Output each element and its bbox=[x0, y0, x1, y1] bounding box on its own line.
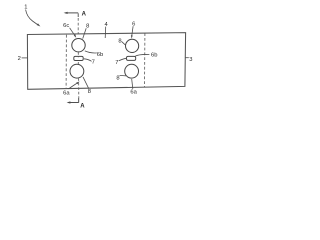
hole 8 bottom-left bbox=[70, 64, 84, 78]
leader 2 bbox=[22, 57, 28, 59]
leader 8 top-left bbox=[83, 28, 87, 38]
leader 6b right bbox=[135, 54, 149, 56]
svg-text:A: A bbox=[82, 12, 87, 18]
svg-text:2: 2 bbox=[18, 56, 21, 62]
svg-text:6b: 6b bbox=[151, 53, 157, 59]
leader 8 top-right bbox=[122, 42, 126, 46]
leader 3 bbox=[185, 57, 189, 59]
svg-text:A: A bbox=[80, 103, 85, 109]
section arrow A top bbox=[64, 12, 79, 14]
svg-text:8: 8 bbox=[116, 75, 119, 81]
svg-text:6b: 6b bbox=[97, 52, 103, 58]
leader 8 bottom-right bbox=[120, 74, 127, 77]
section line A-A gap dashes bbox=[77, 52, 79, 57]
svg-text:3: 3 bbox=[189, 57, 192, 63]
leader 7 right bbox=[119, 58, 127, 61]
leader 6a right bbox=[132, 79, 133, 89]
leader 6b left bbox=[85, 51, 97, 53]
svg-text:8: 8 bbox=[86, 23, 89, 29]
svg-text:7: 7 bbox=[92, 59, 95, 65]
svg-text:6a: 6a bbox=[130, 89, 137, 95]
hole 8 top-left bbox=[72, 39, 85, 52]
svg-text:1: 1 bbox=[24, 4, 27, 10]
leader 7 left bbox=[84, 59, 92, 62]
hole 8 top-right bbox=[126, 39, 139, 52]
leader 1 bbox=[26, 10, 39, 26]
svg-text:8: 8 bbox=[88, 89, 91, 95]
svg-text:6c: 6c bbox=[63, 23, 69, 29]
leader 6c arrow bbox=[70, 28, 75, 35]
phantom line left bbox=[65, 35, 67, 89]
section arrow A bottom bbox=[67, 98, 79, 104]
svg-text:8: 8 bbox=[118, 39, 121, 45]
slot 7 left bbox=[74, 56, 83, 60]
svg-text:7: 7 bbox=[115, 60, 118, 66]
svg-text:6a: 6a bbox=[63, 90, 70, 96]
phantom line right bbox=[144, 33, 146, 87]
leader 8 bottom-left bbox=[83, 77, 89, 89]
hole 8 bottom-right bbox=[125, 64, 139, 78]
slot 7 right bbox=[127, 56, 136, 60]
leader 6a left arrow bbox=[69, 83, 78, 89]
leader 6 arrow bbox=[132, 26, 133, 35]
section line A-A lower bbox=[78, 78, 80, 98]
section line A-A upper bbox=[77, 13, 79, 17]
plate outline 1 bbox=[27, 33, 185, 90]
leader 4 bbox=[104, 27, 107, 38]
